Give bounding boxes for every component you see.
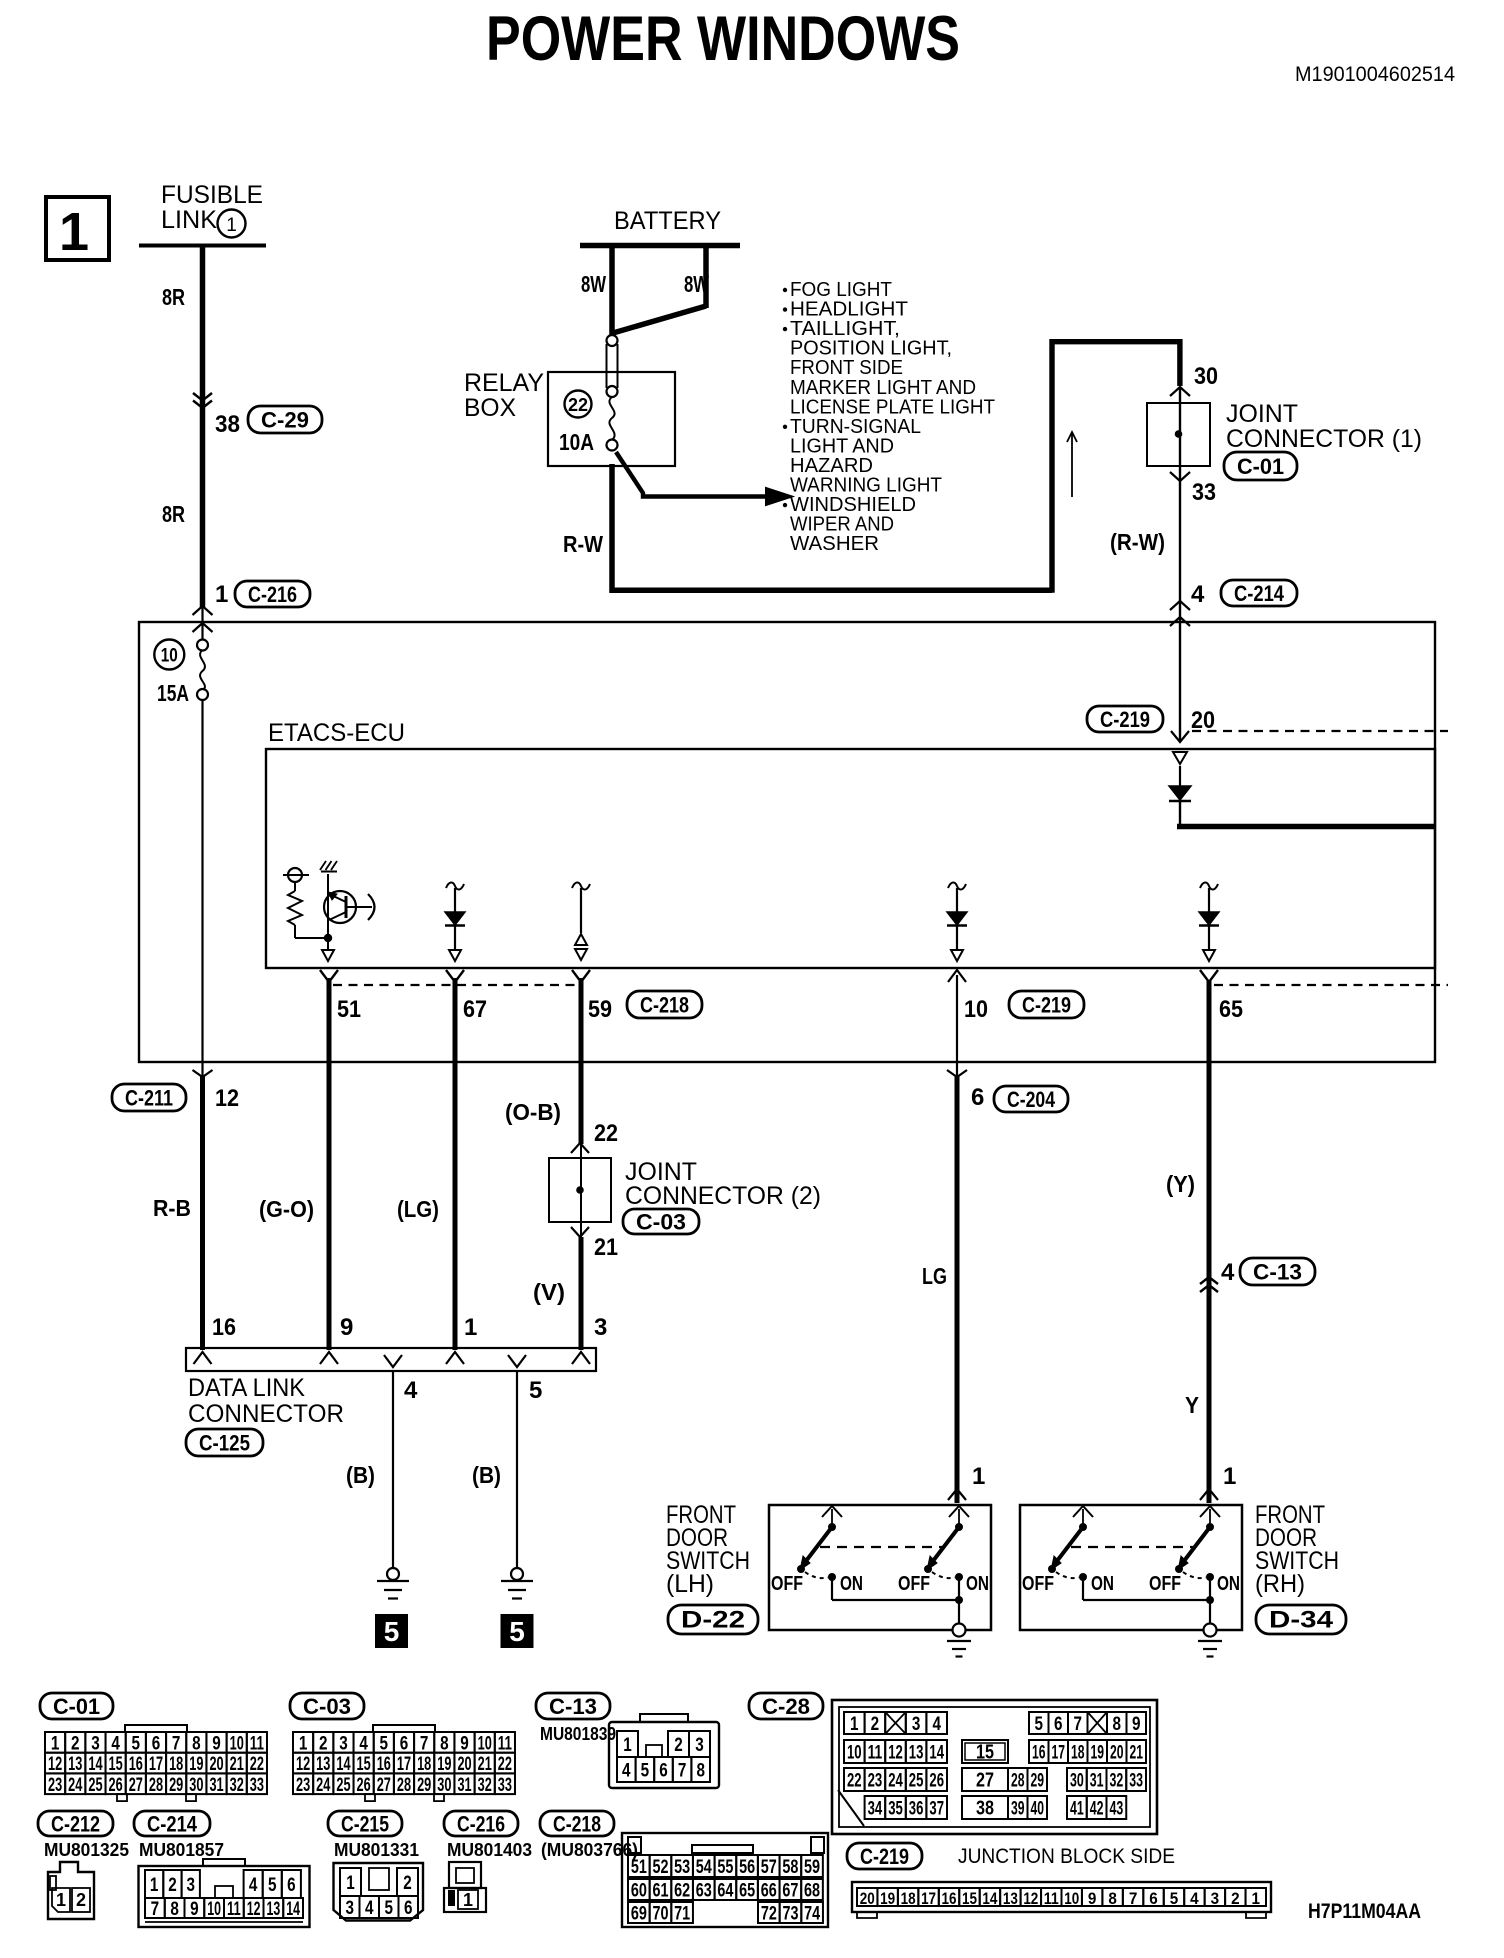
svg-text:37: 37 (929, 1798, 944, 1820)
svg-text:32: 32 (478, 1774, 492, 1796)
svg-text:Y: Y (1185, 1392, 1199, 1418)
svg-text:29: 29 (417, 1774, 431, 1796)
svg-text:15A: 15A (157, 680, 189, 706)
svg-text:29: 29 (1031, 1770, 1045, 1792)
svg-text:8R: 8R (162, 501, 185, 527)
svg-text:63: 63 (696, 1881, 712, 1902)
svg-text:21: 21 (230, 1753, 244, 1775)
svg-text:18: 18 (1071, 1742, 1085, 1764)
svg-text:3: 3 (1211, 1889, 1220, 1908)
svg-text:8W: 8W (684, 271, 709, 297)
svg-text:25: 25 (909, 1770, 924, 1792)
svg-text:LINK: LINK (161, 206, 217, 234)
svg-text:9: 9 (1088, 1889, 1097, 1908)
svg-text:13: 13 (267, 1899, 281, 1920)
svg-text:13: 13 (1003, 1889, 1018, 1908)
svg-text:ETACS-ECU: ETACS-ECU (268, 719, 405, 747)
svg-text:1: 1 (464, 1314, 477, 1341)
svg-text:FUSIBLE: FUSIBLE (161, 181, 263, 209)
svg-text:C-125: C-125 (199, 1431, 250, 1456)
svg-text:8: 8 (1113, 1713, 1122, 1735)
svg-text:5: 5 (529, 1377, 542, 1404)
svg-text:16: 16 (942, 1889, 957, 1908)
svg-text:8: 8 (192, 1732, 201, 1754)
svg-text:2: 2 (319, 1732, 328, 1754)
svg-text:34: 34 (868, 1798, 883, 1820)
svg-text:39: 39 (1011, 1798, 1025, 1820)
svg-text:(V): (V) (533, 1279, 565, 1305)
svg-text:C-01: C-01 (53, 1694, 100, 1719)
svg-text:27: 27 (377, 1774, 391, 1796)
svg-text:MU801331: MU801331 (334, 1840, 419, 1860)
svg-text:64: 64 (717, 1881, 733, 1902)
svg-text:17: 17 (1052, 1742, 1066, 1764)
svg-text:54: 54 (696, 1857, 712, 1878)
svg-text:3: 3 (346, 1897, 355, 1919)
svg-text:C-219: C-219 (1100, 707, 1150, 732)
svg-text:4: 4 (404, 1377, 418, 1404)
svg-text:10: 10 (207, 1899, 221, 1920)
svg-text:53: 53 (674, 1857, 690, 1878)
svg-text:22: 22 (250, 1753, 264, 1775)
svg-text:27: 27 (976, 1770, 994, 1792)
svg-text:41: 41 (1070, 1798, 1084, 1820)
svg-text:70: 70 (652, 1904, 668, 1925)
svg-text:22: 22 (498, 1753, 512, 1775)
svg-text:31: 31 (1090, 1770, 1104, 1792)
svg-text:CONNECTOR: CONNECTOR (188, 1400, 344, 1428)
svg-text:9: 9 (340, 1314, 353, 1341)
svg-text:20: 20 (1110, 1742, 1124, 1764)
svg-text:C-214: C-214 (147, 1812, 198, 1837)
svg-text:1: 1 (623, 1734, 632, 1756)
svg-text:(R-W): (R-W) (1110, 529, 1165, 555)
svg-text:30: 30 (437, 1774, 451, 1796)
svg-text:65: 65 (739, 1881, 755, 1902)
svg-text:13: 13 (909, 1742, 924, 1764)
svg-text:M1901004602514: M1901004602514 (1295, 63, 1455, 86)
svg-text:61: 61 (652, 1881, 668, 1902)
svg-text:14: 14 (88, 1753, 102, 1775)
svg-text:3: 3 (912, 1713, 921, 1735)
svg-text:7: 7 (1074, 1713, 1083, 1735)
svg-text:23: 23 (48, 1774, 62, 1796)
svg-text:20: 20 (457, 1753, 471, 1775)
svg-text:(G-O): (G-O) (259, 1196, 314, 1222)
svg-text:2: 2 (71, 1732, 80, 1754)
svg-text:20: 20 (209, 1753, 223, 1775)
svg-text:1: 1 (51, 1732, 60, 1754)
svg-text:3: 3 (339, 1732, 348, 1754)
svg-text:7: 7 (420, 1732, 429, 1754)
svg-text:28: 28 (1011, 1770, 1025, 1792)
svg-text:30: 30 (1070, 1770, 1084, 1792)
svg-text:17: 17 (397, 1753, 411, 1775)
svg-text:C-218: C-218 (553, 1812, 601, 1837)
svg-text:43: 43 (1110, 1798, 1124, 1820)
svg-text:C-13: C-13 (549, 1694, 597, 1719)
svg-text:(B): (B) (346, 1462, 375, 1488)
svg-text:32: 32 (230, 1774, 244, 1796)
svg-text:5: 5 (641, 1760, 650, 1782)
svg-text:BOX: BOX (464, 394, 516, 422)
svg-text:15: 15 (962, 1889, 977, 1908)
svg-text:10: 10 (847, 1742, 862, 1764)
svg-text:33: 33 (498, 1774, 512, 1796)
svg-text:1: 1 (1223, 1463, 1236, 1490)
svg-text:C-211: C-211 (125, 1086, 173, 1111)
svg-text:1: 1 (463, 1890, 473, 1910)
svg-text:73: 73 (782, 1904, 798, 1925)
svg-text:8W: 8W (581, 271, 606, 297)
svg-text:MU801839: MU801839 (540, 1724, 616, 1744)
svg-text:16: 16 (1032, 1742, 1046, 1764)
svg-text:21: 21 (594, 1234, 618, 1261)
svg-text:8: 8 (170, 1899, 179, 1920)
svg-text:1: 1 (1252, 1889, 1261, 1908)
svg-text:2: 2 (674, 1734, 683, 1756)
svg-text:58: 58 (782, 1857, 798, 1878)
svg-text:24: 24 (888, 1770, 903, 1792)
svg-text:JUNCTION BLOCK SIDE: JUNCTION BLOCK SIDE (958, 1845, 1175, 1868)
svg-text:C-215: C-215 (341, 1812, 389, 1837)
svg-text:67: 67 (782, 1881, 798, 1902)
svg-text:5: 5 (1035, 1713, 1044, 1735)
svg-text:51: 51 (631, 1857, 647, 1878)
svg-text:C-212: C-212 (51, 1812, 100, 1837)
svg-text:68: 68 (804, 1881, 820, 1902)
svg-text:66: 66 (761, 1881, 777, 1902)
svg-text:1: 1 (850, 1713, 859, 1735)
svg-text:(B): (B) (472, 1462, 501, 1488)
svg-text:23: 23 (296, 1774, 310, 1796)
svg-text:6: 6 (659, 1760, 668, 1782)
svg-text:11: 11 (498, 1732, 512, 1754)
svg-text:BATTERY: BATTERY (614, 207, 721, 235)
svg-text:62: 62 (674, 1881, 690, 1902)
svg-text:1: 1 (56, 1890, 66, 1910)
svg-text:9: 9 (460, 1732, 469, 1754)
svg-text:19: 19 (880, 1889, 895, 1908)
svg-text:C-219: C-219 (860, 1844, 909, 1869)
svg-text:19: 19 (437, 1753, 451, 1775)
svg-text:8: 8 (440, 1732, 449, 1754)
svg-text:2: 2 (1231, 1889, 1240, 1908)
svg-text:22: 22 (594, 1120, 618, 1147)
svg-text:6: 6 (1149, 1889, 1158, 1908)
svg-text:POWER WINDOWS: POWER WINDOWS (486, 4, 960, 74)
svg-text:C-219: C-219 (1022, 993, 1071, 1018)
svg-text:(MU803766): (MU803766) (541, 1840, 638, 1860)
svg-text:R-W: R-W (563, 531, 603, 557)
svg-text:12: 12 (888, 1742, 903, 1764)
svg-text:74: 74 (804, 1904, 820, 1925)
svg-text:6: 6 (971, 1084, 984, 1111)
svg-text:C-13: C-13 (1253, 1260, 1302, 1285)
svg-text:35: 35 (888, 1798, 903, 1820)
svg-text:ON: ON (966, 1573, 989, 1595)
svg-text:MU801403: MU801403 (447, 1840, 532, 1860)
svg-text:20: 20 (860, 1889, 875, 1908)
svg-text:59: 59 (588, 996, 612, 1023)
svg-text:MU801857: MU801857 (139, 1840, 224, 1860)
svg-text:CONNECTOR (1): CONNECTOR (1) (1226, 425, 1422, 453)
svg-text:33: 33 (1129, 1770, 1143, 1792)
svg-text:72: 72 (761, 1904, 777, 1925)
svg-text:2: 2 (168, 1874, 177, 1896)
svg-text:17: 17 (921, 1889, 936, 1908)
svg-text:1: 1 (226, 215, 237, 236)
svg-text:67: 67 (463, 996, 487, 1023)
svg-text:(RH): (RH) (1255, 1570, 1305, 1598)
svg-text:31: 31 (209, 1774, 223, 1796)
svg-text:1: 1 (215, 581, 228, 608)
svg-text:57: 57 (761, 1857, 777, 1878)
svg-text:(Y): (Y) (1166, 1171, 1195, 1197)
svg-text:13: 13 (68, 1753, 82, 1775)
svg-text:10: 10 (230, 1732, 244, 1754)
svg-text:23: 23 (868, 1770, 883, 1792)
svg-text:14: 14 (286, 1899, 300, 1920)
svg-text:11: 11 (250, 1732, 264, 1754)
svg-text:5: 5 (380, 1732, 389, 1754)
svg-text:14: 14 (929, 1742, 944, 1764)
svg-text:14: 14 (336, 1753, 350, 1775)
svg-text:C-29: C-29 (261, 408, 309, 433)
svg-text:24: 24 (316, 1774, 330, 1796)
svg-text:25: 25 (336, 1774, 350, 1796)
svg-text:(O-B): (O-B) (505, 1099, 561, 1125)
svg-text:38: 38 (976, 1798, 994, 1820)
svg-text:16: 16 (212, 1314, 236, 1341)
svg-text:11: 11 (1044, 1889, 1059, 1908)
svg-text:5: 5 (385, 1897, 394, 1919)
svg-text:ON: ON (840, 1573, 863, 1595)
svg-text:69: 69 (631, 1904, 647, 1925)
svg-text:15: 15 (109, 1753, 123, 1775)
svg-text:12: 12 (1023, 1889, 1038, 1908)
svg-text:56: 56 (739, 1857, 755, 1878)
svg-text:4: 4 (932, 1713, 941, 1735)
svg-text:6: 6 (400, 1732, 409, 1754)
svg-text:OFF: OFF (898, 1573, 930, 1595)
svg-text:13: 13 (316, 1753, 330, 1775)
svg-text:RELAY: RELAY (464, 369, 544, 397)
svg-text:7: 7 (151, 1899, 160, 1920)
svg-text:18: 18 (417, 1753, 431, 1775)
svg-text:22: 22 (847, 1770, 862, 1792)
svg-text:36: 36 (909, 1798, 924, 1820)
svg-text:30: 30 (1194, 363, 1218, 390)
svg-text:42: 42 (1090, 1798, 1104, 1820)
svg-text:9: 9 (190, 1899, 199, 1920)
svg-text:16: 16 (129, 1753, 143, 1775)
svg-text:4: 4 (1191, 581, 1205, 608)
svg-text:C-28: C-28 (762, 1694, 810, 1719)
svg-text:JOINT: JOINT (1226, 400, 1298, 428)
svg-text:40: 40 (1031, 1798, 1045, 1820)
svg-text:26: 26 (109, 1774, 123, 1796)
svg-text:3: 3 (594, 1314, 607, 1341)
svg-text:ON: ON (1091, 1573, 1114, 1595)
svg-text:10: 10 (161, 646, 178, 667)
svg-text:D-34: D-34 (1269, 1607, 1334, 1634)
svg-text:12: 12 (247, 1899, 261, 1920)
svg-text:WASHER: WASHER (790, 532, 879, 555)
svg-text:1: 1 (299, 1732, 308, 1754)
svg-text:7: 7 (172, 1732, 181, 1754)
svg-text:(LH): (LH) (666, 1570, 714, 1598)
svg-text:5: 5 (132, 1732, 141, 1754)
svg-text:17: 17 (149, 1753, 163, 1775)
svg-text:3: 3 (695, 1734, 704, 1756)
svg-text:12: 12 (48, 1753, 62, 1775)
svg-text:4: 4 (622, 1760, 631, 1782)
svg-text:52: 52 (652, 1857, 668, 1878)
svg-text:51: 51 (337, 996, 361, 1023)
svg-text:11: 11 (227, 1899, 241, 1920)
svg-text:11: 11 (868, 1742, 883, 1764)
svg-text:10: 10 (478, 1732, 492, 1754)
svg-text:16: 16 (377, 1753, 391, 1775)
svg-text:26: 26 (357, 1774, 371, 1796)
svg-text:C-204: C-204 (1007, 1087, 1056, 1112)
svg-text:OFF: OFF (1022, 1573, 1054, 1595)
svg-text:8: 8 (696, 1760, 705, 1782)
svg-text:C-03: C-03 (303, 1694, 351, 1719)
svg-text:H7P11M04AA: H7P11M04AA (1308, 1900, 1421, 1923)
svg-text:C-218: C-218 (640, 993, 689, 1018)
svg-text:65: 65 (1219, 996, 1243, 1023)
svg-text:R-B: R-B (153, 1195, 191, 1221)
svg-text:12: 12 (215, 1085, 239, 1112)
svg-text:1: 1 (59, 202, 89, 262)
svg-text:8: 8 (1108, 1889, 1117, 1908)
svg-text:OFF: OFF (771, 1573, 803, 1595)
svg-text:9: 9 (212, 1732, 221, 1754)
svg-text:28: 28 (149, 1774, 163, 1796)
svg-text:ON: ON (1217, 1573, 1240, 1595)
svg-text:4: 4 (365, 1897, 374, 1919)
svg-text:C-216: C-216 (248, 582, 297, 607)
svg-text:5: 5 (509, 1616, 525, 1647)
svg-text:2: 2 (76, 1890, 86, 1910)
svg-text:D-22: D-22 (681, 1607, 745, 1634)
svg-text:14: 14 (982, 1889, 997, 1908)
svg-text:18: 18 (901, 1889, 916, 1908)
svg-text:27: 27 (129, 1774, 143, 1796)
svg-text:LG: LG (922, 1263, 947, 1289)
svg-text:10A: 10A (559, 429, 594, 455)
svg-text:22: 22 (568, 395, 588, 415)
svg-text:31: 31 (457, 1774, 471, 1796)
svg-text:28: 28 (397, 1774, 411, 1796)
svg-text:(LG): (LG) (397, 1196, 439, 1222)
svg-text:OFF: OFF (1149, 1573, 1181, 1595)
svg-text:4: 4 (249, 1874, 258, 1896)
svg-text:71: 71 (674, 1904, 690, 1925)
svg-text:9: 9 (1132, 1713, 1141, 1735)
svg-text:5: 5 (1170, 1889, 1179, 1908)
svg-text:C-01: C-01 (1237, 454, 1284, 479)
svg-text:C-03: C-03 (636, 1210, 686, 1235)
svg-text:4: 4 (1190, 1889, 1199, 1908)
svg-text:29: 29 (169, 1774, 183, 1796)
svg-text:1: 1 (346, 1872, 355, 1894)
svg-text:60: 60 (631, 1881, 647, 1902)
svg-text:2: 2 (403, 1872, 412, 1894)
svg-text:6: 6 (152, 1732, 161, 1754)
svg-text:6: 6 (287, 1874, 296, 1896)
svg-text:3: 3 (91, 1732, 100, 1754)
svg-text:24: 24 (68, 1774, 82, 1796)
svg-text:4: 4 (1221, 1259, 1235, 1286)
svg-text:CONNECTOR (2): CONNECTOR (2) (625, 1182, 821, 1210)
svg-text:21: 21 (1130, 1742, 1144, 1764)
svg-text:15: 15 (357, 1753, 371, 1775)
svg-text:19: 19 (189, 1753, 203, 1775)
svg-text:2: 2 (871, 1713, 880, 1735)
svg-text:4: 4 (111, 1732, 120, 1754)
svg-text:30: 30 (189, 1774, 203, 1796)
svg-text:15: 15 (976, 1742, 994, 1764)
svg-text:19: 19 (1091, 1742, 1105, 1764)
svg-text:26: 26 (929, 1770, 944, 1792)
svg-text:1: 1 (150, 1874, 159, 1896)
svg-text:55: 55 (717, 1857, 733, 1878)
svg-text:3: 3 (187, 1874, 196, 1896)
svg-text:25: 25 (88, 1774, 102, 1796)
svg-text:4: 4 (359, 1732, 368, 1754)
svg-text:DATA LINK: DATA LINK (188, 1374, 305, 1402)
svg-text:10: 10 (1064, 1889, 1079, 1908)
svg-text:7: 7 (1129, 1889, 1138, 1908)
svg-text:59: 59 (804, 1857, 820, 1878)
svg-text:12: 12 (296, 1753, 310, 1775)
svg-text:1: 1 (972, 1463, 985, 1490)
svg-text:33: 33 (250, 1774, 264, 1796)
svg-text:5: 5 (384, 1616, 400, 1647)
svg-text:C-214: C-214 (1234, 581, 1285, 606)
svg-text:18: 18 (169, 1753, 183, 1775)
svg-text:10: 10 (964, 996, 988, 1023)
svg-text:33: 33 (1192, 479, 1216, 506)
svg-text:7: 7 (678, 1760, 687, 1782)
svg-text:8R: 8R (162, 284, 185, 310)
svg-text:C-216: C-216 (457, 1812, 505, 1837)
svg-text:38: 38 (215, 411, 240, 438)
svg-text:32: 32 (1110, 1770, 1124, 1792)
svg-text:6: 6 (404, 1897, 413, 1919)
svg-text:6: 6 (1054, 1713, 1063, 1735)
svg-text:5: 5 (268, 1874, 277, 1896)
svg-text:21: 21 (478, 1753, 492, 1775)
svg-text:MU801325: MU801325 (44, 1840, 129, 1860)
